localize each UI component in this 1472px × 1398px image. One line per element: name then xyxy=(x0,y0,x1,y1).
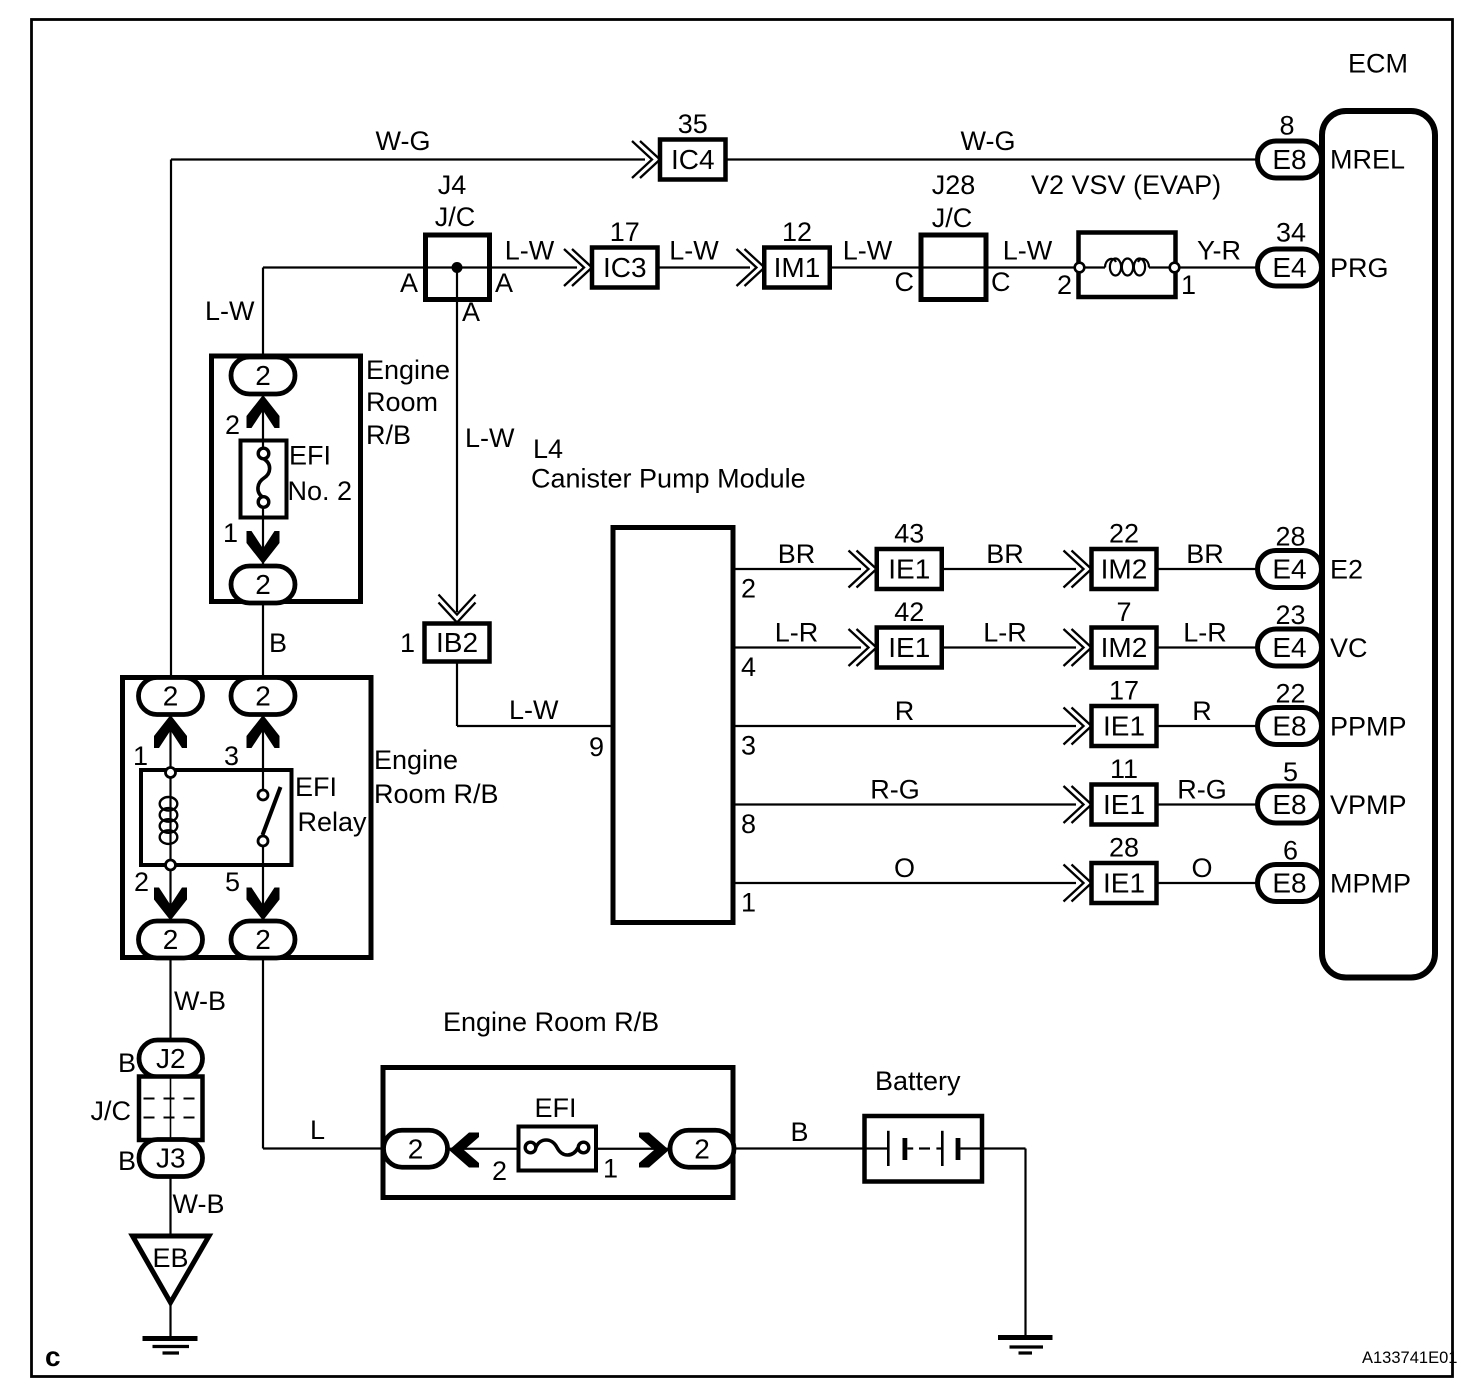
svg-text:2: 2 xyxy=(255,924,271,955)
VSV coil xyxy=(1105,259,1116,268)
ECM connector body U1 xyxy=(1322,111,1435,978)
svg-text:J4: J4 xyxy=(438,170,467,200)
svg-text:L-R: L-R xyxy=(983,618,1027,648)
svg-text:E4: E4 xyxy=(1272,554,1306,585)
svg-text:J28: J28 xyxy=(932,170,976,200)
svg-text:IE1: IE1 xyxy=(1103,789,1145,820)
splice chevron into IC3 xyxy=(572,249,592,286)
connector oval 2 right xyxy=(670,1130,734,1167)
svg-text:3: 3 xyxy=(224,741,239,771)
svg-text:L: L xyxy=(310,1115,325,1145)
splice chevron into IC4 xyxy=(640,141,660,178)
svg-text:PRG: PRG xyxy=(1330,253,1389,283)
wire B xyxy=(262,602,264,680)
svg-text:BR: BR xyxy=(1186,539,1224,569)
arrow down pin 2 xyxy=(169,870,171,923)
svg-text:R/B: R/B xyxy=(366,420,411,450)
svg-text:IE1: IE1 xyxy=(888,632,930,663)
svg-text:MPMP: MPMP xyxy=(1330,869,1411,899)
svg-text:MREL: MREL xyxy=(1330,145,1405,175)
svg-text:BR: BR xyxy=(986,539,1024,569)
svg-text:B: B xyxy=(118,1146,136,1176)
wire W-B lower xyxy=(169,1176,171,1236)
svg-text:2: 2 xyxy=(134,867,149,897)
connector J2 xyxy=(139,1040,203,1077)
svg-text:3: 3 xyxy=(741,731,756,761)
svg-text:E8: E8 xyxy=(1272,789,1306,820)
svg-text:43: 43 xyxy=(894,519,924,549)
svg-text:11: 11 xyxy=(1110,754,1138,784)
relay top oval right xyxy=(231,678,295,715)
svg-text:EB: EB xyxy=(153,1243,189,1273)
svg-text:B: B xyxy=(791,1117,809,1147)
ground symbol battery xyxy=(998,1335,1053,1340)
svg-text:28: 28 xyxy=(1109,833,1139,863)
relay bottom oval left xyxy=(139,921,203,958)
connector oval 2 top xyxy=(231,357,295,394)
svg-text:42: 42 xyxy=(894,597,924,627)
svg-text:R: R xyxy=(895,696,915,726)
svg-text:E8: E8 xyxy=(1272,144,1306,175)
svg-text:PPMP: PPMP xyxy=(1330,712,1407,742)
svg-text:c: c xyxy=(45,1341,61,1372)
svg-text:2: 2 xyxy=(225,410,240,440)
connector IC3 pin 17 xyxy=(592,248,658,288)
svg-text:Battery: Battery xyxy=(875,1066,961,1096)
wire from J4 down to IB2 xyxy=(456,268,458,613)
svg-text:Relay: Relay xyxy=(298,807,368,837)
connector oval 2 bottom xyxy=(231,566,295,603)
svg-text:2: 2 xyxy=(163,924,179,955)
svg-text:EFI: EFI xyxy=(535,1093,577,1123)
svg-text:W-G: W-G xyxy=(376,126,431,156)
svg-text:A: A xyxy=(400,268,418,298)
splice chevron into IB2 xyxy=(439,603,476,623)
svg-text:L-R: L-R xyxy=(1183,618,1227,648)
wire inside block xyxy=(448,1148,526,1150)
svg-text:8: 8 xyxy=(741,809,756,839)
svg-text:2: 2 xyxy=(163,681,179,712)
svg-text:Engine: Engine xyxy=(374,745,458,775)
block Engine Room R/B (EFI No.2) xyxy=(212,356,361,602)
connector IE1 pin 42 xyxy=(877,628,942,668)
svg-text:35: 35 xyxy=(678,109,708,139)
svg-text:2: 2 xyxy=(255,569,271,600)
svg-text:2: 2 xyxy=(255,681,271,712)
svg-text:Canister Pump Module: Canister Pump Module xyxy=(531,464,806,494)
svg-text:2: 2 xyxy=(408,1133,424,1164)
svg-text:IM1: IM1 xyxy=(774,252,821,283)
svg-text:12: 12 xyxy=(782,217,812,247)
arrow up pin 3 xyxy=(262,713,264,795)
svg-text:B: B xyxy=(118,1048,136,1078)
svg-text:L-R: L-R xyxy=(775,618,819,648)
svg-text:E8: E8 xyxy=(1272,868,1306,899)
svg-text:J2: J2 xyxy=(156,1043,186,1074)
relay EFI Relay box xyxy=(141,770,292,865)
svg-text:B: B xyxy=(269,628,287,658)
svg-text:E8: E8 xyxy=(1272,711,1306,742)
relay top oval left xyxy=(139,678,203,715)
connector IE1 pin 11 xyxy=(1092,785,1157,825)
relay bottom oval right xyxy=(231,921,295,958)
junction J/C block xyxy=(139,1077,203,1141)
svg-text:L-W: L-W xyxy=(465,423,515,453)
wire battery to ground xyxy=(982,1147,1026,1149)
relay switch xyxy=(258,790,268,800)
svg-text:W-B: W-B xyxy=(173,1189,225,1219)
svg-text:C: C xyxy=(895,267,915,297)
svg-text:9: 9 xyxy=(589,732,604,762)
svg-text:Room R/B: Room R/B xyxy=(374,779,499,809)
wire W-B xyxy=(169,957,171,1041)
arrow up pin 2 xyxy=(262,393,264,451)
svg-text:L-W: L-W xyxy=(843,236,893,266)
svg-text:1: 1 xyxy=(400,628,415,658)
svg-text:2: 2 xyxy=(492,1156,507,1186)
wire L xyxy=(262,957,264,1149)
svg-text:J/C: J/C xyxy=(91,1096,132,1126)
svg-text:1: 1 xyxy=(741,888,756,918)
ground symbol EB xyxy=(143,1336,198,1341)
wire W-G vertical xyxy=(170,160,172,680)
svg-text:W-B: W-B xyxy=(174,986,226,1016)
splice chevron into IM1 xyxy=(745,249,765,286)
svg-text:A: A xyxy=(495,268,513,298)
svg-text:L-W: L-W xyxy=(669,236,719,266)
svg-text:4: 4 xyxy=(741,652,756,682)
svg-text:ECM: ECM xyxy=(1348,49,1408,79)
svg-text:O: O xyxy=(894,853,915,883)
wire B to battery xyxy=(734,1147,865,1149)
svg-text:R-G: R-G xyxy=(1177,775,1227,805)
svg-text:A: A xyxy=(462,297,480,327)
svg-text:5: 5 xyxy=(225,867,240,897)
arrow left pin 2 xyxy=(449,1133,479,1168)
svg-text:17: 17 xyxy=(610,217,640,247)
VSV pin 2 xyxy=(1075,263,1085,273)
connector IC4 pin 35 xyxy=(660,140,726,180)
fuse EFI No.2 xyxy=(241,441,287,518)
svg-text:EFI: EFI xyxy=(289,441,331,471)
svg-text:VC: VC xyxy=(1330,633,1368,663)
svg-text:IE1: IE1 xyxy=(1103,711,1145,742)
svg-text:28: 28 xyxy=(1275,522,1305,552)
connector IM1 pin 12 xyxy=(764,248,830,288)
svg-text:17: 17 xyxy=(1109,676,1139,706)
svg-text:8: 8 xyxy=(1279,111,1294,141)
arrow up pin 1 xyxy=(169,713,171,770)
svg-text:1: 1 xyxy=(1181,270,1196,300)
svg-text:5: 5 xyxy=(1283,757,1298,787)
svg-text:7: 7 xyxy=(1116,597,1131,627)
svg-text:Room: Room xyxy=(366,387,438,417)
connector J3 xyxy=(139,1140,203,1177)
svg-text:2: 2 xyxy=(255,360,271,391)
svg-text:2: 2 xyxy=(1057,270,1072,300)
svg-text:Y-R: Y-R xyxy=(1197,236,1241,266)
relay coil xyxy=(169,778,171,861)
svg-text:W-G: W-G xyxy=(961,126,1016,156)
wire L-W / Y-R horizontal PRG line xyxy=(263,266,577,268)
svg-text:J/C: J/C xyxy=(435,202,476,232)
svg-text:2: 2 xyxy=(741,574,756,604)
svg-text:6: 6 xyxy=(1283,836,1298,866)
wire W-G horizontal to MREL xyxy=(171,158,645,160)
connector IE1 pin 43 xyxy=(877,549,942,589)
svg-text:V2 VSV (EVAP): V2 VSV (EVAP) xyxy=(1031,170,1221,200)
arrow down pin 5 xyxy=(262,846,264,923)
svg-text:22: 22 xyxy=(1109,519,1139,549)
svg-text:L-W: L-W xyxy=(1003,236,1053,266)
svg-text:C: C xyxy=(991,267,1011,297)
svg-text:22: 22 xyxy=(1275,679,1305,709)
connector IM2 pin 7 xyxy=(1092,628,1157,668)
svg-text:IB2: IB2 xyxy=(436,627,478,658)
svg-text:Engine: Engine xyxy=(366,355,450,385)
svg-text:1: 1 xyxy=(133,741,148,771)
ground point EB xyxy=(133,1236,210,1303)
svg-text:L-W: L-W xyxy=(205,296,255,326)
svg-text:IM2: IM2 xyxy=(1101,632,1148,663)
svg-text:IC4: IC4 xyxy=(671,144,715,175)
svg-text:E4: E4 xyxy=(1272,632,1306,663)
connector IE1 pin 28 xyxy=(1092,863,1157,903)
svg-text:J3: J3 xyxy=(156,1143,186,1174)
connector IE1 pin 17 xyxy=(1092,706,1157,746)
svg-text:E4: E4 xyxy=(1272,252,1306,283)
svg-text:No. 2: No. 2 xyxy=(288,476,353,506)
svg-text:23: 23 xyxy=(1275,600,1305,630)
svg-text:O: O xyxy=(1191,853,1212,883)
svg-text:J/C: J/C xyxy=(932,203,973,233)
svg-text:E2: E2 xyxy=(1330,555,1363,585)
svg-text:R-G: R-G xyxy=(870,775,920,805)
svg-text:IE1: IE1 xyxy=(1103,868,1145,899)
svg-text:Engine Room R/B: Engine Room R/B xyxy=(443,1007,659,1037)
svg-text:1: 1 xyxy=(223,518,238,548)
svg-text:L-W: L-W xyxy=(505,236,555,266)
svg-text:R: R xyxy=(1192,696,1212,726)
VSV pin 1 xyxy=(1170,263,1180,273)
svg-text:34: 34 xyxy=(1276,218,1306,248)
svg-text:BR: BR xyxy=(778,539,816,569)
wire L-W from IB2 to module pin 9 xyxy=(456,662,458,727)
svg-text:EFI: EFI xyxy=(295,772,337,802)
svg-text:IE1: IE1 xyxy=(888,554,930,585)
svg-text:1: 1 xyxy=(603,1154,618,1184)
svg-text:2: 2 xyxy=(694,1133,710,1164)
connector IM2 pin 22 xyxy=(1092,549,1157,589)
svg-text:L4: L4 xyxy=(533,434,563,464)
block Engine Room R/B (EFI Relay) xyxy=(123,678,372,958)
svg-text:A133741E01: A133741E01 xyxy=(1362,1349,1457,1367)
svg-text:L-W: L-W xyxy=(509,695,559,725)
svg-text:IM2: IM2 xyxy=(1101,554,1148,585)
svg-text:IC3: IC3 xyxy=(603,252,647,283)
wire L-W vertical to EFI No.2 xyxy=(262,268,264,359)
connector oval 2 left xyxy=(384,1130,448,1167)
svg-text:VPMP: VPMP xyxy=(1330,790,1407,820)
